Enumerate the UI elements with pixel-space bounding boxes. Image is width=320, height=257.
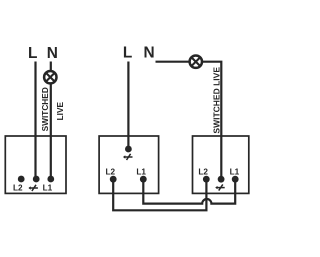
svg-text:L2: L2 — [13, 183, 23, 192]
common symbol (SW3) — [215, 184, 225, 190]
terminal L2 (SW2) — [110, 176, 117, 183]
lamp DS1 — [44, 71, 56, 83]
svg-text:L1: L1 — [43, 183, 53, 192]
wire L to common terminal — [34, 62, 36, 180]
svg-text:LIVE: LIVE — [55, 102, 65, 121]
common symbol (SW1) — [28, 185, 38, 191]
wire N to lamp — [50, 62, 52, 72]
wire L2(SW2) to L2(SW3) — [113, 179, 206, 210]
svg-text:L: L — [123, 45, 132, 62]
svg-text:L2: L2 — [198, 167, 208, 176]
wire L1(SW2) to L1(SW3) with hop over L2 wire — [143, 179, 235, 203]
svg-text:N: N — [47, 45, 58, 62]
switch SW2 box — [99, 136, 159, 193]
svg-text:SWITCHED: SWITCHED — [40, 87, 50, 131]
svg-text:SWITCHED LIVE: SWITCHED LIVE — [212, 67, 222, 134]
svg-text:L2: L2 — [106, 167, 116, 176]
svg-text:L1: L1 — [230, 167, 240, 176]
common symbol (SW2) — [123, 154, 133, 160]
terminal L1 (SW1) — [47, 176, 54, 183]
terminal L2 (SW3) — [203, 176, 210, 183]
switch SW3 box — [193, 136, 249, 193]
terminal common (SW2) — [125, 146, 132, 153]
wire switched live from lamp to SW3 common — [201, 62, 221, 180]
svg-text:L: L — [28, 45, 37, 62]
svg-text:N: N — [143, 45, 154, 62]
terminal common (SW3) — [218, 176, 225, 183]
terminal L1 (SW3) — [232, 176, 239, 183]
svg-text:L1: L1 — [136, 167, 146, 176]
wire N to lamp — [156, 61, 191, 63]
terminal L1 (SW2) — [140, 176, 147, 183]
wire L to SW2 common — [127, 62, 129, 150]
terminal L2 (SW1) — [18, 176, 25, 183]
switch SW1 box — [5, 136, 66, 193]
wire switched live from lamp to L1 — [50, 83, 52, 179]
lamp DS2 — [190, 56, 202, 68]
terminal common (SW1) — [33, 176, 40, 183]
